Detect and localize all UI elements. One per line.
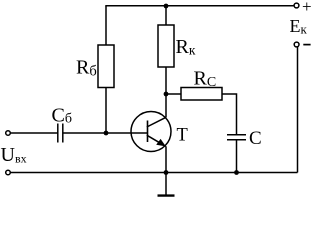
svg-text:T: T <box>177 126 188 146</box>
transistor T emitter arrowhead <box>156 139 166 147</box>
svg-text:+: + <box>302 0 312 16</box>
junction top rail / Rk <box>164 4 169 9</box>
capacitor C <box>227 134 246 136</box>
transistor T circle <box>131 112 171 152</box>
capacitor Cb <box>57 124 59 143</box>
wire input to Cb <box>10 132 58 134</box>
junction collector / RC <box>164 92 169 97</box>
ground bar <box>158 194 175 196</box>
wire Rk top lead <box>165 6 167 25</box>
wire bottom rail <box>10 172 297 174</box>
svg-text:C: C <box>249 128 262 149</box>
wire right vertical <box>297 47 299 173</box>
wire Cb to base <box>63 132 148 134</box>
terminal input top <box>6 131 11 136</box>
transistor T emitter diagonal <box>147 135 166 146</box>
terminal Ek plus <box>294 3 299 8</box>
wire RC right lead <box>222 94 237 134</box>
wire RC left lead <box>166 93 181 95</box>
wire Rb top lead <box>105 6 107 45</box>
wire top rail <box>105 5 294 7</box>
resistor Rb <box>98 45 114 88</box>
junction emitter / bottom rail <box>164 170 169 175</box>
junction C / bottom rail <box>234 170 239 175</box>
label minus <box>303 44 310 46</box>
wire Rb bottom lead <box>105 88 107 134</box>
transistor T base bar <box>147 121 149 143</box>
wire C bottom lead <box>236 140 238 173</box>
wire emitter vertical <box>165 146 167 172</box>
resistor Rk <box>158 25 174 67</box>
resistor RC <box>181 88 222 101</box>
ground lead <box>165 173 167 196</box>
wire collector vertical <box>165 67 167 117</box>
terminal Ek minus <box>294 42 299 47</box>
junction base node <box>104 131 109 136</box>
terminal input bottom <box>6 170 11 175</box>
transistor T collector diagonal <box>147 117 166 127</box>
